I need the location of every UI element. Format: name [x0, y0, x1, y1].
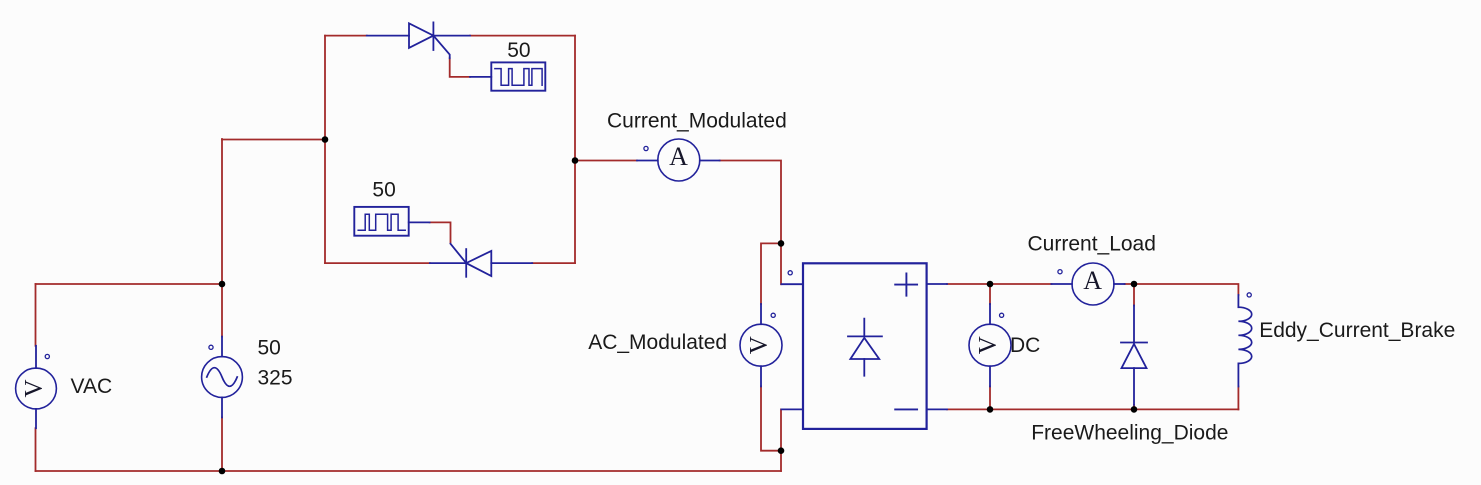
- wire: loop top left segment: [325, 35, 367, 37]
- node: diode top junction: [1131, 281, 1138, 288]
- wire: left branch top horizontal (VAC to source node): [36, 283, 223, 285]
- svg-text:A: A: [669, 142, 688, 171]
- wire: gate of top thyristor: [450, 58, 470, 77]
- bridge plus mark: [895, 274, 917, 296]
- voltmeter DC: [969, 304, 1011, 386]
- wire: node to AC voltmeter top: [761, 243, 781, 304]
- node: source bottom junction: [219, 468, 226, 475]
- svg-text:V: V: [975, 336, 1002, 354]
- freewheeling diode D1: [1121, 306, 1147, 405]
- svg-text:50: 50: [258, 337, 281, 360]
- node: source top junction: [322, 136, 329, 143]
- svg-text:50: 50: [372, 178, 395, 201]
- node: loop output junction: [572, 157, 579, 164]
- wire: gate of bottom thyristor: [430, 222, 451, 242]
- wire: left branch vertical above VAC: [35, 284, 37, 346]
- wire: loop bottom right segment: [532, 262, 575, 264]
- wire: lower node down to bottom rail: [780, 451, 782, 471]
- wire: source branch vertical above source: [221, 139, 223, 337]
- wire: thyristor loop right vertical: [574, 36, 576, 264]
- wire: bottom horizontal rail: [36, 470, 782, 472]
- wire: DC voltmeter top connection: [989, 284, 991, 304]
- svg-text:50: 50: [507, 39, 530, 62]
- svg-text:V: V: [21, 379, 48, 397]
- thyristor T2 (bottom, pointing left): [430, 244, 532, 277]
- ammeter Current_Modulated: [637, 139, 720, 181]
- wire: thyristor loop left vertical: [324, 36, 326, 264]
- svg-text:V: V: [746, 336, 773, 354]
- wire: load ammeter to top right corner: [1125, 284, 1239, 295]
- wire: horizontal from source branch to thyristor loop: [222, 139, 325, 141]
- node: DC bottom junction: [987, 406, 994, 413]
- wire: bridge top output to load: [947, 283, 1051, 285]
- svg-text:Eddy_Current_Brake: Eddy_Current_Brake: [1259, 319, 1455, 342]
- bridge minus mark: [895, 408, 917, 410]
- wire: left branch vertical below VAC: [35, 428, 37, 471]
- thyristor T1 (top, pointing right): [367, 22, 470, 58]
- wire: lower node up to bridge bottom input: [780, 409, 782, 450]
- junction node dots: [219, 136, 1138, 474]
- wire: bridge bottom output rail: [947, 408, 1238, 410]
- svg-text:AC_Modulated: AC_Modulated: [588, 331, 727, 354]
- inductor L1 Eddy_Current_Brake: [1238, 293, 1251, 387]
- svg-text:VAC: VAC: [71, 375, 113, 398]
- wire: node down to bridge top input: [780, 243, 782, 284]
- wire: freewheeling diode bottom connection: [1133, 405, 1135, 410]
- node: diode bottom junction: [1131, 406, 1138, 413]
- node: source left junction: [219, 281, 226, 288]
- node: DC top junction: [987, 281, 994, 288]
- svg-text:DC: DC: [1010, 334, 1040, 357]
- wire: loop bottom left segment: [325, 262, 430, 264]
- AC source VSIN: [202, 337, 243, 418]
- diode bridge BD1: [782, 263, 948, 429]
- gating block G2: [354, 207, 429, 236]
- wire: source branch vertical below source: [221, 417, 223, 471]
- wire: DC voltmeter bottom connection: [989, 386, 991, 409]
- svg-text:Current_Modulated: Current_Modulated: [607, 109, 787, 132]
- wire: AC voltmeter bottom to lower node: [761, 386, 781, 450]
- voltmeter VAC: [16, 346, 57, 428]
- gating block G1: [470, 62, 545, 90]
- wire: loop top right segment: [470, 35, 575, 37]
- bridge diode glyph: [848, 319, 882, 376]
- svg-text:FreeWheeling_Diode: FreeWheeling_Diode: [1031, 421, 1228, 444]
- wire: inductor bottom to bottom rail: [1237, 387, 1239, 410]
- svg-text:Current_Load: Current_Load: [1028, 233, 1156, 256]
- wire: ammeter to bridge node: [720, 161, 781, 244]
- svg-text:325: 325: [258, 367, 293, 390]
- node: bridge bottom-left junction: [778, 447, 785, 454]
- svg-text:A: A: [1083, 266, 1102, 295]
- node: bridge top-left junction: [778, 240, 785, 247]
- wire: freewheeling diode top connection: [1133, 284, 1135, 306]
- voltmeter AC_Modulated: [740, 304, 782, 386]
- ammeter Current_Load: [1051, 263, 1124, 305]
- wire: loop to ammeter: [575, 160, 637, 162]
